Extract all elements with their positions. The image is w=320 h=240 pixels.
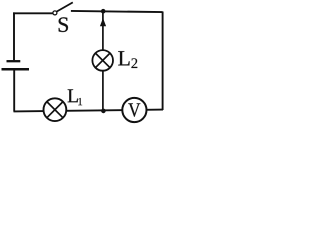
wire: top-right segment (switch to top-right corner) [71, 11, 163, 12]
lamp L1: circle [44, 98, 67, 121]
junction node: bottom (dot) [101, 109, 106, 114]
lamp L2: cross [95, 53, 110, 68]
label L1: subscript 1 [78, 98, 82, 105]
switch S: pivot circle [53, 11, 57, 15]
voltmeter V: circle [122, 98, 146, 122]
wire: right vertical [162, 12, 164, 111]
label L2: subscript 2 [131, 58, 137, 68]
voltmeter V: letter V [128, 103, 140, 116]
wire: left vertical upper (top corner down to battery) [13, 12, 15, 60]
label L2: letter L [118, 51, 129, 65]
lamp L2: circle [92, 50, 113, 71]
wire: middle branch vertical [102, 11, 104, 111]
switch S: blade (open) [57, 2, 73, 11]
lamp L1: cross [47, 102, 63, 118]
current arrow (pointing up) on middle branch [100, 18, 106, 26]
wire: left vertical lower (battery down to bottom corner) [13, 69, 15, 112]
label L1: letter L [68, 89, 78, 102]
label S [59, 17, 68, 32]
battery: long plate (bottom terminal) [2, 68, 30, 71]
wire: top-left segment (battery to switch) [13, 12, 53, 14]
wire: bottom horizontal [14, 110, 164, 112]
junction node: top (dot) [101, 9, 106, 14]
battery: short plate (top terminal) [7, 60, 21, 62]
